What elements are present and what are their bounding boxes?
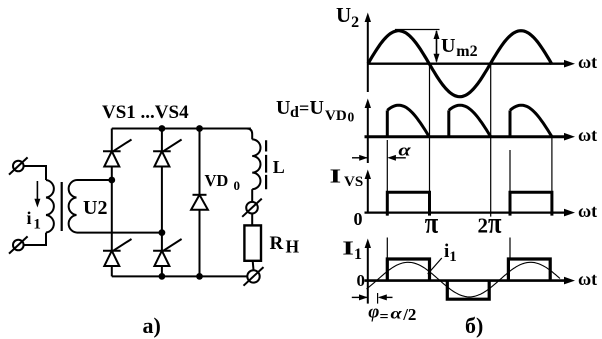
thin line alpha3 [509, 150, 511, 192]
node top rail VD0 [196, 125, 203, 132]
plot2 axis horizontal baseline [365, 135, 570, 138]
svg-text:0: 0 [234, 178, 241, 193]
freewheeling diode column wire [199, 129, 201, 277]
svg-text:2: 2 [478, 214, 489, 238]
svg-text:=: = [299, 98, 309, 118]
svg-text:ωt: ωt [578, 125, 597, 145]
resistor RH [244, 225, 261, 260]
thin line 3pi [551, 137, 553, 213]
svg-text:π: π [425, 206, 438, 239]
svg-text:U: U [276, 97, 290, 119]
wire resistor to terminal [252, 261, 255, 270]
wire terminal to resistor [251, 213, 253, 225]
phi dimension arrows [352, 296, 367, 298]
thyristor VS2 lower left [103, 250, 121, 252]
terminal input bottom [13, 240, 24, 251]
svg-text:=: = [380, 309, 389, 326]
plot4 axis horizontal [365, 279, 570, 282]
IVS pulse 1 [387, 192, 429, 215]
phi tick [377, 293, 379, 304]
node secondary bottom junction [159, 229, 166, 236]
inductor core dashed [265, 140, 267, 189]
svg-text:0: 0 [354, 209, 363, 229]
wire inductor to terminal [251, 189, 253, 202]
I1 square wave [387, 259, 429, 281]
transformer secondary winding [69, 180, 77, 233]
alpha dimension arrows [352, 157, 367, 159]
node bottom rail middle [159, 273, 166, 280]
svg-text:ωt: ωt [578, 269, 597, 289]
svg-text:Um2: Um2 [441, 35, 478, 60]
svg-text:H: H [286, 237, 300, 257]
plot1 axis vertical [367, 18, 369, 92]
plot4 axis vertical [367, 244, 369, 304]
svg-text:1: 1 [33, 217, 41, 233]
load branch top wire [247, 129, 253, 140]
fundamental sine i1 thin [367, 262, 561, 297]
left bridge column wire [111, 129, 113, 277]
wire primary bottom [24, 233, 46, 245]
svg-text:φ: φ [368, 302, 379, 323]
svg-text:VD: VD [325, 108, 347, 124]
svg-text:L: L [273, 157, 285, 177]
svg-text:0: 0 [348, 110, 355, 125]
Um2 arrow [436, 31, 438, 62]
bottom rail [112, 275, 248, 277]
svg-text:VS: VS [344, 174, 363, 190]
plot3 axis vertical [367, 175, 369, 213]
svg-text:i1: i1 [444, 241, 457, 265]
svg-text:0: 0 [357, 271, 366, 290]
svg-text:i: i [27, 208, 32, 228]
diode VD0 [193, 194, 207, 196]
transformer primary winding [46, 180, 54, 233]
wire secondary bottom [77, 232, 162, 234]
svg-text:d: d [290, 104, 299, 121]
plot3 axis horizontal [365, 212, 570, 214]
svg-text:б): б) [465, 313, 483, 338]
svg-text:π: π [488, 206, 501, 239]
svg-text:I: I [342, 236, 354, 259]
thyristor VS1 [103, 150, 121, 152]
terminal input top [13, 161, 24, 172]
current arrow i1 [36, 181, 38, 202]
svg-text:ωt: ωt [578, 201, 597, 221]
node secondary top junction [108, 177, 115, 184]
transformer core [61, 182, 63, 231]
node top rail middle [159, 125, 166, 132]
terminal load bottom [247, 270, 259, 282]
thyristor VS3 [153, 150, 171, 152]
plot1 axis horizontal [368, 63, 569, 65]
svg-text:α: α [391, 305, 403, 322]
svg-text:α: α [398, 141, 411, 160]
middle bridge column wire [161, 129, 163, 277]
thin line 2pi full [490, 64, 492, 217]
svg-text:VS1 ...VS4: VS1 ...VS4 [102, 102, 189, 123]
terminal load top [246, 202, 258, 214]
sine U2 [368, 31, 552, 97]
top rail [112, 128, 251, 130]
plot2 axis vertical [367, 104, 369, 163]
svg-text:U2: U2 [336, 3, 359, 31]
rectified humps [386, 110, 389, 136]
wire secondary top [77, 179, 112, 181]
svg-text:R: R [270, 233, 284, 254]
svg-text:1: 1 [354, 246, 362, 263]
svg-text:а): а) [143, 313, 161, 338]
wire primary top [24, 166, 46, 180]
IVS pulse 2 [510, 192, 552, 215]
thin line pi full [429, 64, 431, 213]
thin line alpha1 [386, 140, 388, 216]
svg-text:ωt: ωt [578, 52, 597, 72]
svg-text:I: I [330, 164, 342, 187]
node bottom rail VD0 [196, 273, 203, 280]
svg-text:U: U [310, 97, 324, 119]
svg-text:U2: U2 [83, 197, 107, 219]
peak reference line [395, 29, 440, 31]
svg-text:/2: /2 [402, 305, 416, 324]
thyristor VS4 lower middle [153, 250, 171, 252]
inductor L [252, 139, 260, 189]
svg-text:VD: VD [205, 171, 229, 190]
